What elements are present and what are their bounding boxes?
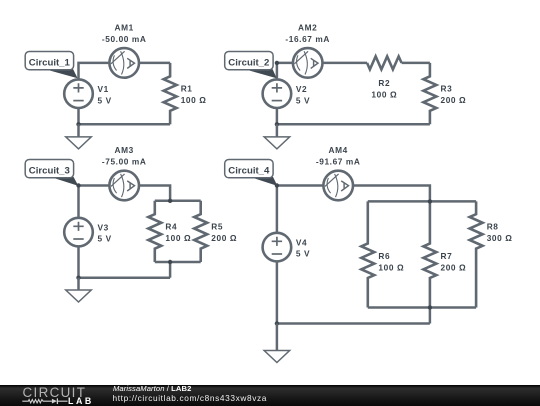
svg-text:R8: R8 — [487, 221, 499, 231]
svg-text:200 Ω: 200 Ω — [441, 95, 467, 105]
svg-text:100 Ω: 100 Ω — [165, 233, 191, 243]
junction c3 bar bottom — [168, 260, 172, 264]
ammeter AM1 — [109, 48, 139, 78]
svg-text:200 Ω: 200 Ω — [211, 233, 237, 243]
ammeter AM4 — [323, 171, 353, 201]
wire V1 top to AM1 — [79, 63, 110, 80]
junction c3 bottom — [76, 276, 80, 280]
junction c4 bar bottom — [428, 305, 432, 309]
junction c4 bar top — [428, 199, 432, 203]
svg-text:Circuit_3: Circuit_3 — [29, 166, 70, 177]
wire V2 bottom — [276, 108, 279, 124]
resistor R7 200 &#937; — [423, 201, 466, 307]
svg-text:Circuit_2: Circuit_2 — [228, 58, 269, 69]
CircuitLab logo — [23, 384, 87, 399]
resistor R1 100 &#937; — [164, 63, 207, 124]
wire V1 bottom — [77, 108, 80, 124]
svg-text:300 Ω: 300 Ω — [487, 233, 513, 243]
wire V4 top stub — [276, 186, 279, 233]
wire AM3 to par block — [139, 186, 170, 201]
wire bottom rail c2 — [277, 123, 430, 126]
junction c2 bottom — [275, 122, 279, 126]
wire V3 bottom — [77, 246, 80, 277]
logo resistor-diode glyph — [22, 398, 67, 404]
svg-text:R6: R6 — [378, 251, 390, 261]
wire AM2 to R2 — [323, 62, 368, 65]
node label Circuit_1 — [25, 52, 77, 79]
svg-text:-75.00 mA: -75.00 mA — [102, 156, 147, 166]
wire V3 top stub — [77, 186, 80, 218]
junction c3 bar top — [168, 199, 172, 203]
voltage source V4 — [263, 233, 311, 262]
svg-text:5 V: 5 V — [98, 95, 112, 105]
svg-text:V4: V4 — [296, 237, 307, 247]
wire bottom rail c3 — [79, 276, 171, 279]
wire AM1 to R1 — [139, 62, 170, 65]
svg-text:R1: R1 — [181, 84, 193, 94]
junction c3 top — [76, 183, 80, 187]
ground — [264, 324, 290, 363]
svg-text:100 Ω: 100 Ω — [378, 262, 404, 272]
wire R2 to corner — [402, 62, 430, 65]
wire bottom rail c4 — [277, 322, 430, 325]
node label Circuit_4 — [225, 160, 278, 186]
svg-text:200 Ω: 200 Ω — [441, 262, 467, 272]
svg-text:Circuit_4: Circuit_4 — [228, 166, 270, 177]
svg-text:AM1: AM1 — [115, 23, 134, 33]
svg-text:5 V: 5 V — [98, 234, 112, 244]
junction c2 top — [275, 61, 279, 65]
resistor R8 300 &#937; — [470, 201, 513, 307]
resistor R5 200 &#937; — [194, 201, 237, 262]
resistor R3 200 &#937; — [423, 63, 466, 124]
wire bar to rail c4 — [429, 308, 432, 324]
wire to AM3 — [79, 184, 110, 187]
svg-text:R2: R2 — [378, 78, 390, 88]
wire AM4 to corner down — [353, 186, 430, 202]
wire top bar c3 — [155, 200, 201, 203]
wire to AM2 — [277, 62, 293, 65]
resistor R4 100 &#937; — [148, 201, 191, 262]
svg-text:5 V: 5 V — [296, 95, 310, 105]
wire par block down — [169, 262, 172, 278]
voltage source V3 — [64, 218, 112, 247]
node label Circuit_2 — [225, 52, 277, 79]
junction c1 bottom — [76, 122, 80, 126]
wire bottom bar c4 — [368, 306, 476, 309]
resistor R2 100 &#937; — [367, 56, 402, 99]
voltage source V2 — [263, 79, 311, 108]
node label Circuit_3 — [25, 160, 78, 186]
svg-text:AM3: AM3 — [115, 145, 134, 155]
ground — [66, 278, 92, 302]
ground — [66, 124, 92, 149]
wire V4 bottom — [276, 261, 279, 323]
ground — [264, 124, 290, 149]
junction c4 bottom — [275, 321, 279, 325]
svg-text:100 Ω: 100 Ω — [181, 95, 207, 105]
svg-text:-91.67 mA: -91.67 mA — [316, 156, 361, 166]
wire to AM4 — [277, 184, 324, 187]
svg-text:V2: V2 — [296, 84, 307, 94]
footer bar — [0, 385, 540, 406]
ammeter AM2 — [293, 48, 323, 78]
svg-text:R5: R5 — [211, 221, 223, 231]
svg-text:V1: V1 — [98, 84, 109, 94]
svg-text:R4: R4 — [165, 221, 177, 231]
wire top bar c4 — [368, 200, 476, 203]
wire bottom bar c3 — [155, 261, 201, 264]
junction c4 top — [275, 183, 279, 187]
wire bottom rail c1 — [79, 123, 171, 126]
svg-text:V3: V3 — [98, 222, 109, 232]
wire V2 top stub — [276, 63, 279, 80]
svg-text:AM4: AM4 — [329, 145, 348, 155]
svg-text:Circuit_1: Circuit_1 — [29, 58, 71, 69]
resistor R6 100 &#937; — [361, 201, 404, 307]
svg-text:5 V: 5 V — [296, 249, 310, 259]
svg-text:AM2: AM2 — [298, 23, 317, 33]
svg-text:100 Ω: 100 Ω — [371, 90, 397, 100]
svg-text:-50.00 mA: -50.00 mA — [102, 34, 147, 44]
svg-text:R3: R3 — [441, 84, 453, 94]
ammeter AM3 — [109, 171, 139, 201]
svg-text:-16.67 mA: -16.67 mA — [285, 34, 330, 44]
svg-text:R7: R7 — [441, 251, 453, 261]
voltage source V1 — [64, 79, 112, 108]
